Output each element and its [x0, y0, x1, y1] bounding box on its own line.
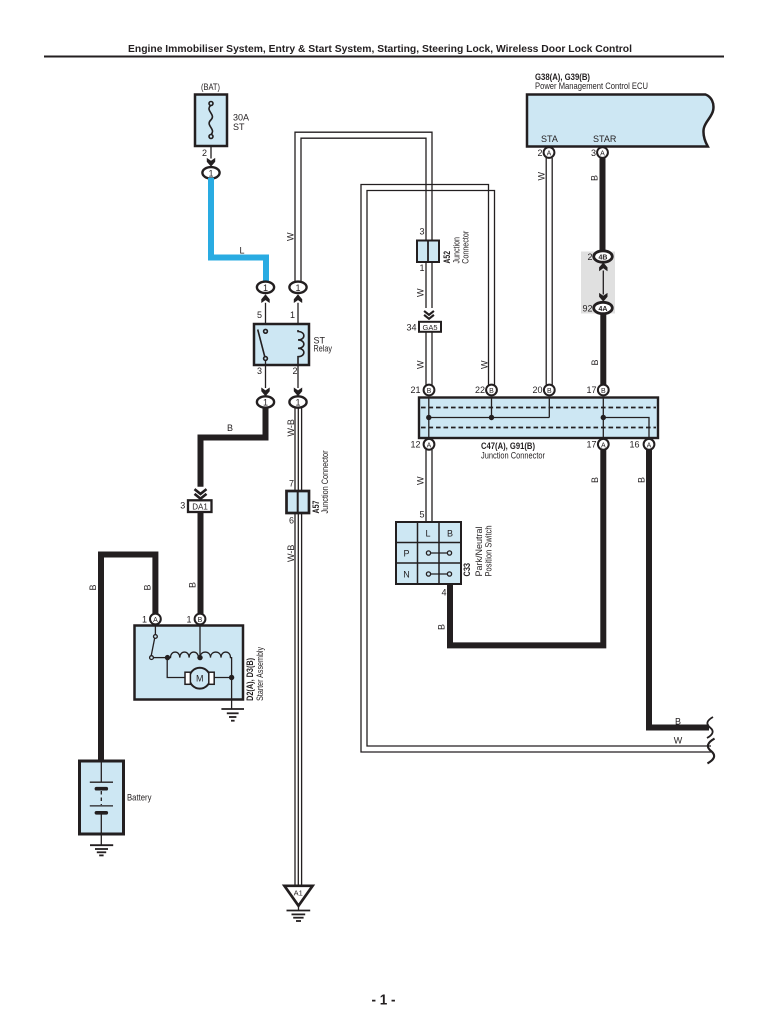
ECU pin 2 circle A — [544, 147, 555, 158]
wire right brush — [214, 677, 231, 679]
wire left brush — [167, 660, 185, 678]
starter coil — [168, 652, 232, 675]
battery ground — [90, 845, 113, 855]
wire W pin22 loop to page edge (double line) — [361, 185, 711, 753]
svg-text:4A: 4A — [599, 306, 608, 313]
wire B DA1 to starter pin B — [198, 512, 204, 614]
svg-text:2: 2 — [537, 148, 542, 158]
svg-text:STA: STA — [541, 134, 558, 144]
junction dot — [165, 655, 170, 660]
wire to relay pin 1 — [297, 303, 299, 324]
terminal arrow down — [599, 293, 607, 302]
svg-text:Junction Connector: Junction Connector — [481, 450, 545, 460]
wire to starter ground — [231, 678, 233, 709]
svg-text:17: 17 — [586, 385, 596, 395]
junction dot — [489, 415, 494, 420]
svg-text:W-B: W-B — [286, 545, 296, 562]
svg-text:C47(A), G91(B): C47(A), G91(B) — [481, 441, 535, 451]
connector DA1 box — [188, 500, 212, 512]
svg-text:16: 16 — [629, 440, 639, 450]
terminal arrow up — [599, 263, 607, 272]
svg-text:A: A — [547, 151, 552, 158]
connector ellipse 1 — [257, 396, 274, 407]
relay switch — [258, 329, 268, 360]
terminal arrow up — [261, 294, 269, 303]
svg-text:B: B — [590, 359, 600, 365]
battery cells — [90, 761, 113, 845]
svg-text:B: B — [427, 388, 432, 395]
battery box — [80, 761, 124, 834]
svg-text:5: 5 — [257, 310, 262, 320]
relay pin 2 wire — [297, 365, 299, 388]
fuse 30A ST box — [195, 95, 227, 147]
svg-text:B: B — [198, 617, 203, 624]
terminal arrow down — [261, 388, 269, 397]
wire W pin12 to C33 pin5 (double line) — [426, 450, 432, 522]
svg-text:ST: ST — [233, 122, 245, 132]
svg-text:B: B — [590, 477, 600, 483]
svg-text:L: L — [425, 529, 430, 539]
svg-text:1: 1 — [295, 398, 300, 408]
svg-text:A52: A52 — [442, 251, 452, 264]
wire fuse pin 2 — [210, 146, 212, 159]
wire W STA to pin 20 (double line) — [546, 158, 552, 385]
svg-text:A1: A1 — [294, 888, 303, 897]
junction dot — [229, 675, 234, 680]
wire B battery to starter pin A — [101, 555, 155, 762]
svg-text:B: B — [590, 175, 600, 181]
svg-text:Position Switch: Position Switch — [484, 526, 494, 577]
svg-text:P: P — [403, 549, 409, 559]
wire W A52 to GA5 (double line) — [426, 262, 432, 308]
battery plate thick 1 — [95, 787, 109, 791]
motor M — [189, 668, 210, 689]
svg-text:22: 22 — [475, 385, 485, 395]
connector ellipse 1 (relay pin5 side) — [257, 282, 274, 293]
relay pin 3 wire — [265, 360, 267, 388]
starter pin circle A — [150, 614, 161, 625]
svg-text:W: W — [480, 360, 490, 369]
junction connector A57 box — [287, 491, 310, 513]
svg-text:B: B — [437, 624, 447, 630]
svg-text:A: A — [600, 151, 605, 158]
relay coil — [298, 330, 304, 365]
svg-text:4: 4 — [441, 587, 446, 597]
svg-text:1: 1 — [263, 398, 268, 408]
svg-text:B: B — [188, 582, 198, 588]
svg-text:1: 1 — [290, 310, 295, 320]
starter ground — [221, 709, 244, 721]
svg-text:W-B: W-B — [286, 419, 296, 436]
connector chevrons DA1 — [195, 489, 207, 499]
svg-text:Junction Connector: Junction Connector — [320, 450, 330, 513]
junction connector A52 box — [417, 241, 439, 263]
svg-text:A: A — [647, 443, 652, 450]
svg-text:DA1: DA1 — [192, 503, 208, 512]
junction dot — [601, 415, 606, 420]
ground A1 bars — [287, 911, 311, 922]
junction dot — [197, 655, 202, 660]
svg-text:3: 3 — [419, 227, 424, 237]
svg-text:92: 92 — [582, 304, 592, 314]
svg-text:A: A — [601, 443, 606, 450]
relay ST box — [254, 324, 309, 365]
svg-text:1: 1 — [142, 615, 147, 625]
wire B 4A to pin 17 — [600, 314, 606, 385]
fuse element — [209, 102, 213, 139]
break symbol B wire — [707, 717, 713, 738]
wire W-B relay pin2 to A1 (triple line) — [295, 408, 302, 885]
brush right — [209, 672, 214, 684]
svg-text:12: 12 — [410, 440, 420, 450]
connector GA5 box — [419, 322, 441, 332]
connector ellipse 1 (relay pin1 side) — [289, 282, 306, 293]
svg-text:C33: C33 — [462, 563, 472, 577]
svg-text:W: W — [286, 232, 296, 241]
wire pin B to coil — [199, 625, 201, 658]
C33 contact N row — [426, 572, 451, 576]
svg-text:N: N — [403, 570, 410, 580]
svg-text:1: 1 — [186, 615, 191, 625]
connector shade box — [581, 252, 615, 314]
wire B relay pin3 to DA1 — [201, 408, 266, 487]
svg-text:1: 1 — [419, 263, 424, 273]
svg-text:B: B — [447, 529, 453, 539]
svg-text:STAR: STAR — [593, 134, 617, 144]
ECU box — [527, 95, 713, 147]
connector ellipse 1 — [289, 396, 306, 407]
svg-text:1: 1 — [295, 283, 300, 293]
svg-text:W: W — [416, 288, 426, 297]
dashed rail top — [421, 407, 656, 409]
svg-text:D2(A), D3(B): D2(A), D3(B) — [245, 658, 255, 701]
terminal arrow up — [294, 294, 302, 303]
svg-text:B: B — [547, 388, 552, 395]
connector chevrons GA5 — [424, 311, 434, 319]
dashed rail bottom — [421, 427, 656, 429]
wire between terminals — [602, 271, 604, 295]
svg-text:L: L — [239, 246, 244, 256]
svg-text:B: B — [637, 477, 647, 483]
terminal arrow — [207, 158, 215, 167]
A52 divider — [427, 241, 429, 263]
starter assembly box — [135, 626, 244, 700]
svg-text:GA5: GA5 — [422, 323, 437, 332]
internal wiring — [429, 398, 649, 439]
wire B C33 pin4 joining pin 17A — [450, 450, 603, 646]
svg-text:B: B — [143, 584, 153, 590]
svg-text:6: 6 — [289, 516, 294, 526]
starter switch — [150, 625, 168, 660]
svg-text:W: W — [416, 360, 426, 369]
connector ellipse 4B — [594, 251, 613, 262]
svg-text:A: A — [427, 443, 432, 450]
svg-text:Starter Assembly: Starter Assembly — [255, 647, 265, 701]
svg-text:- 1 -: - 1 - — [372, 992, 396, 1009]
svg-text:3: 3 — [591, 148, 596, 158]
svg-text:Connector: Connector — [461, 231, 471, 264]
svg-text:2: 2 — [292, 366, 297, 376]
svg-text:B: B — [601, 388, 606, 395]
svg-text:W: W — [674, 736, 683, 746]
wire L (blue) — [211, 178, 266, 282]
wire to relay pin 5 — [265, 303, 267, 324]
svg-text:(BAT): (BAT) — [201, 82, 220, 92]
svg-text:M: M — [196, 674, 204, 684]
svg-text:17: 17 — [586, 440, 596, 450]
A57 divider — [297, 491, 299, 513]
wire B STAR to 4B — [600, 158, 606, 251]
svg-text:30A: 30A — [233, 113, 249, 123]
svg-text:B: B — [489, 388, 494, 395]
wire W GA5 to pin21 (double line) — [426, 332, 432, 385]
ground triangle A1 — [284, 886, 312, 906]
svg-text:3: 3 — [257, 366, 262, 376]
connector ellipse 1 — [202, 167, 219, 178]
svg-text:Park/Neutral: Park/Neutral — [474, 527, 484, 577]
svg-text:7: 7 — [289, 479, 294, 489]
svg-text:2: 2 — [202, 148, 207, 158]
connector ellipse 4A — [594, 302, 613, 313]
svg-text:34: 34 — [406, 323, 416, 333]
junction connector C47 box — [419, 398, 658, 439]
svg-text:A: A — [153, 617, 158, 624]
C33 contact P row — [426, 551, 451, 555]
wire B pin16 to page edge — [649, 450, 709, 728]
svg-text:Battery: Battery — [127, 793, 152, 803]
svg-text:B: B — [88, 584, 98, 590]
svg-text:W: W — [416, 476, 426, 485]
brush left — [185, 672, 190, 684]
svg-text:3: 3 — [180, 501, 185, 511]
svg-text:W: W — [537, 172, 547, 181]
break symbol W wire — [707, 739, 714, 764]
svg-text:20: 20 — [532, 385, 542, 395]
wire to ground — [298, 906, 300, 911]
svg-text:1: 1 — [208, 168, 213, 178]
wire W from relay pin1 up and over to A52 (double line) — [295, 132, 432, 282]
svg-text:Relay: Relay — [314, 344, 333, 354]
svg-text:B: B — [675, 717, 681, 727]
ECU pin 3 circle A — [597, 147, 608, 158]
terminal arrow down — [294, 388, 302, 397]
svg-text:Power Management Control ECU: Power Management Control ECU — [535, 81, 648, 91]
svg-text:1: 1 — [263, 283, 268, 293]
park/neutral switch C33 box — [396, 522, 461, 584]
starter pin circle B — [195, 614, 206, 625]
svg-text:4B: 4B — [599, 255, 608, 262]
svg-text:2: 2 — [587, 252, 592, 262]
svg-text:Engine Immobiliser System, Ent: Engine Immobiliser System, Entry & Start… — [128, 44, 632, 55]
title underline — [44, 56, 724, 58]
junction dot — [426, 415, 431, 420]
svg-text:B: B — [227, 423, 233, 433]
battery plate thick 2 — [95, 811, 109, 815]
svg-text:5: 5 — [419, 510, 424, 520]
svg-text:21: 21 — [410, 385, 420, 395]
